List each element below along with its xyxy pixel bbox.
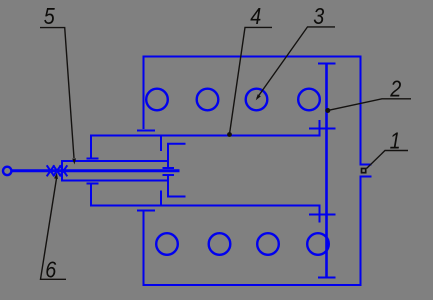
x mark 2 (53, 165, 61, 176)
window bottom-left end bar (87, 183, 99, 185)
upper cross bar horizontal (309, 128, 336, 130)
dot 2 (325, 108, 330, 113)
terminal circle (3, 167, 11, 175)
svg-text:6: 6 (45, 256, 57, 282)
coil hole top 3 (246, 89, 268, 111)
yoke upper-left contour (core outline, left edge with top edge, right edge upper, air-gap upper stub) (144, 57, 372, 165)
rod end cap (61, 160, 63, 182)
x mark 1 (47, 165, 55, 176)
window top-left end bar (87, 158, 99, 160)
coil hole bottom 3 (257, 233, 279, 255)
leader line 6 (41, 177, 67, 280)
upper cross bar vertical (319, 120, 321, 137)
shaft top bar (318, 63, 336, 65)
leader line 2 (329, 99, 412, 111)
x mark 3 (60, 165, 68, 176)
main vertical shaft (325, 64, 328, 278)
rod top line (62, 160, 168, 162)
window bottom line with left vertical (91, 184, 321, 206)
core left-bottom edge end bar (137, 210, 155, 212)
core left-top edge end bar (137, 130, 155, 132)
leader line 5 (40, 28, 74, 158)
coil hole top 2 (197, 89, 219, 111)
armature upper bracket (168, 144, 186, 167)
armature lower bracket (168, 176, 186, 197)
lower cross bar vertical (319, 205, 321, 223)
coil hole top 4 (298, 89, 320, 111)
coil hole bottom 2 (209, 233, 231, 255)
svg-text:3: 3 (313, 3, 324, 29)
leader line 4 (230, 27, 273, 134)
arrow 5 (72, 158, 76, 164)
yoke lower contour (air-gap lower stub, right edge lower, bottom edge, left edge lower) (144, 177, 372, 286)
stub under top line (160, 136, 162, 152)
lower cross bar horizontal (309, 214, 336, 216)
armature upper break bar (163, 167, 175, 169)
stub over bottom line (160, 191, 162, 206)
rod middle line (stem) (11, 169, 180, 172)
armature lower break bar (163, 174, 175, 176)
svg-text:1: 1 (390, 127, 401, 153)
arrow 3 (256, 94, 261, 100)
svg-text:2: 2 (389, 75, 401, 101)
coil hole bottom 1 (156, 233, 178, 255)
leader line 3 (257, 27, 335, 98)
arrow 6 (54, 173, 58, 179)
window top line with left vertical (91, 136, 321, 158)
coil hole top 1 (146, 89, 168, 111)
svg-text:4: 4 (250, 3, 261, 29)
rod bottom line (62, 180, 168, 182)
shaft bottom bar (318, 277, 336, 279)
leader line 1 (367, 151, 409, 169)
square marker 1 (362, 169, 366, 173)
svg-text:5: 5 (44, 3, 56, 29)
dot 4 (227, 132, 232, 137)
coil hole bottom 4 (307, 233, 329, 255)
